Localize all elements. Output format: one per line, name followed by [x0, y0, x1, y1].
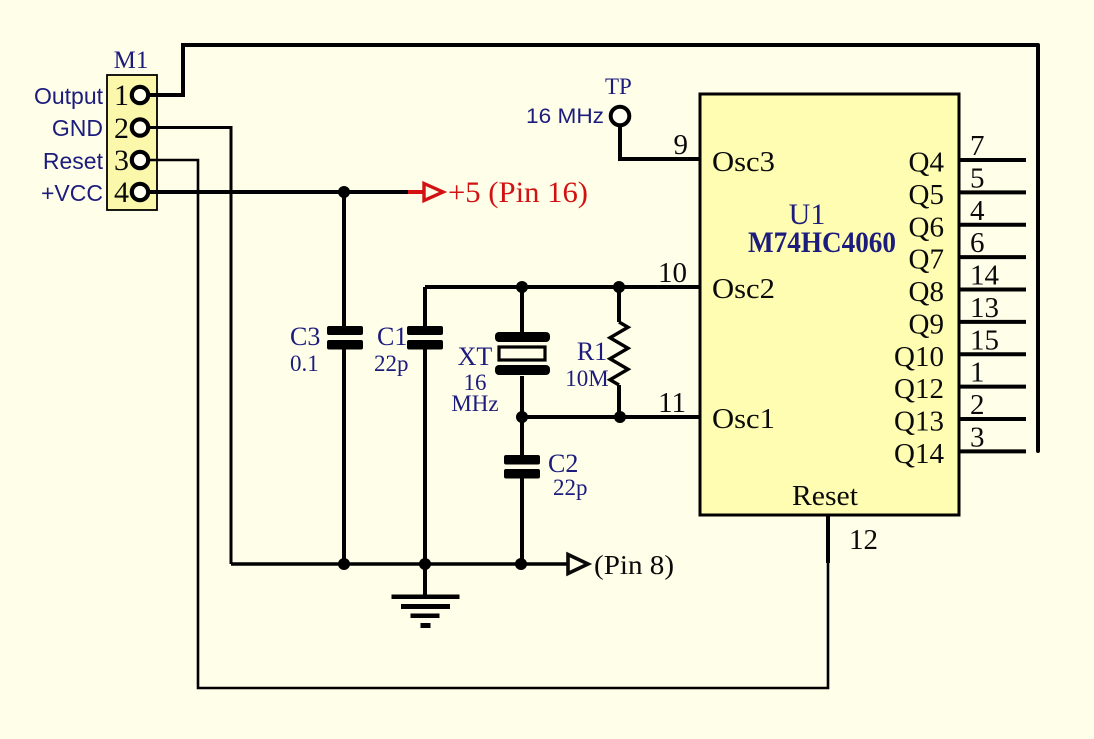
svg-text:3: 3: [970, 421, 985, 453]
svg-text:5: 5: [970, 162, 985, 194]
svg-text:Q8: Q8: [909, 276, 944, 308]
svg-text:Q6: Q6: [909, 211, 944, 243]
wire crystal bottom to Osc1 node: [520, 376, 524, 417]
svg-text:C2: C2: [548, 449, 578, 478]
Q8 pin stub: [959, 288, 1026, 292]
node Osc2 R1 junction: [613, 281, 625, 293]
svg-text:15: 15: [970, 324, 999, 356]
wire M1 pin1 up and across top: [150, 45, 1038, 95]
svg-text:11: 11: [658, 387, 686, 419]
svg-text:Q12: Q12: [894, 373, 944, 405]
svg-text:22p: 22p: [374, 351, 409, 376]
wire M1 pin3 Reset long run to IC pin 12: [150, 160, 828, 688]
svg-text:10: 10: [658, 257, 687, 289]
wire C3 top from VCC node: [342, 192, 346, 326]
svg-text:C3: C3: [290, 322, 320, 351]
svg-text:M1: M1: [114, 47, 149, 74]
wire M1 pin4 +VCC to power arrow: [150, 190, 408, 194]
capacitor C2: [504, 449, 578, 479]
svg-text:9: 9: [674, 129, 689, 161]
resistor R1: [577, 322, 628, 385]
svg-text:Q4: Q4: [909, 147, 945, 179]
wire TP to Osc3 pin 9: [620, 126, 700, 159]
svg-text:Osc3: Osc3: [712, 146, 775, 178]
power flag (Pin 8) ground arrow: [568, 550, 674, 580]
svg-text:1: 1: [114, 79, 129, 112]
svg-text:MHz: MHz: [451, 391, 498, 416]
M1 pin 4 circle: [132, 184, 148, 200]
svg-text:7: 7: [970, 130, 985, 162]
svg-text:4: 4: [114, 176, 129, 209]
wire M1 pin2 GND down to ground bus: [150, 128, 231, 565]
svg-text:Q7: Q7: [909, 244, 944, 276]
connector M1: [107, 47, 157, 210]
svg-text:TP: TP: [605, 74, 632, 99]
wire C3 bottom to bus: [342, 349, 346, 564]
M1 pin 1 circle: [132, 87, 148, 103]
wire R1 top: [617, 287, 621, 322]
svg-text:Q13: Q13: [894, 406, 944, 438]
Q5 pin stub: [959, 190, 1026, 194]
svg-text:1: 1: [970, 357, 985, 389]
svg-text:10M: 10M: [565, 366, 608, 391]
Q9 pin stub: [959, 320, 1026, 324]
wire IC reset pin stub: [826, 515, 830, 563]
Q12 pin stub: [959, 385, 1026, 389]
svg-text:(Pin 8): (Pin 8): [594, 550, 674, 580]
svg-text:Osc2: Osc2: [712, 273, 775, 305]
node Osc1 crystal junction: [516, 411, 528, 423]
svg-text:Q5: Q5: [909, 179, 944, 211]
capacitor C3: [290, 322, 363, 351]
Q14 pin stub: [959, 449, 1026, 453]
wire C2 top: [520, 417, 524, 455]
svg-text:2: 2: [114, 112, 129, 145]
power flag +5 (Pin 16): [408, 176, 588, 209]
svg-text:3: 3: [114, 144, 129, 177]
svg-text:Osc1: Osc1: [712, 403, 775, 435]
svg-text:4: 4: [970, 195, 985, 227]
node bus C3 junction: [338, 558, 350, 570]
svg-text:M74HC4060: M74HC4060: [748, 226, 896, 259]
Q6 pin stub: [959, 223, 1026, 227]
svg-text:2: 2: [970, 389, 985, 421]
svg-text:22p: 22p: [553, 475, 588, 500]
svg-text:Q9: Q9: [909, 308, 944, 340]
svg-text:Reset: Reset: [43, 148, 104, 174]
svg-text:0.1: 0.1: [290, 351, 319, 376]
svg-text:Reset: Reset: [792, 480, 858, 512]
svg-text:13: 13: [970, 292, 999, 324]
wire ground symbol stem: [423, 564, 427, 595]
wire C1 bottom to bus: [423, 349, 427, 564]
test point TP: [605, 74, 632, 125]
node bus ground junction: [419, 558, 431, 570]
node Osc1 R1 junction: [614, 411, 626, 423]
svg-text:12: 12: [849, 524, 878, 556]
svg-text:Q14: Q14: [894, 438, 944, 470]
svg-text:Q10: Q10: [894, 341, 944, 373]
svg-text:XT: XT: [458, 342, 493, 371]
svg-text:Output: Output: [34, 83, 104, 109]
svg-text:R1: R1: [577, 337, 607, 366]
node VCC C3 junction: [338, 186, 350, 198]
IC U1 M74HC4060: [700, 94, 959, 515]
wire C2 bottom to bus: [520, 478, 524, 564]
capacitor C1: [377, 322, 443, 351]
node bus C2 junction: [515, 558, 527, 570]
Q13 pin stub: [959, 417, 1026, 421]
wire C1 top drop: [423, 287, 427, 326]
wire ground bus: [231, 562, 567, 566]
Q7 pin stub: [959, 255, 1026, 259]
wire down right side to Q14 area: [1036, 45, 1040, 451]
svg-text:GND: GND: [52, 115, 103, 141]
Q10 pin stub: [959, 352, 1026, 356]
M1 pin 3 circle: [132, 152, 148, 168]
svg-text:C1: C1: [377, 322, 407, 351]
wire crystal top: [520, 287, 524, 332]
crystal XT: [458, 332, 550, 375]
wire Osc1 pin 11 line: [522, 415, 700, 419]
svg-text:+5 (Pin 16): +5 (Pin 16): [448, 176, 588, 209]
svg-text:+VCC: +VCC: [41, 180, 103, 206]
node Osc2 crystal junction: [516, 281, 528, 293]
M1 pin 2 circle: [132, 119, 148, 135]
value label 16 MHz: [451, 370, 498, 416]
svg-text:14: 14: [970, 260, 1000, 292]
wire Osc2 pin 10 line: [425, 285, 700, 289]
Q4 pin stub: [959, 158, 1026, 162]
ground: [392, 595, 460, 629]
svg-text:16 MHz: 16 MHz: [526, 105, 604, 128]
svg-text:6: 6: [970, 227, 985, 259]
wire R1 bottom: [617, 385, 621, 417]
